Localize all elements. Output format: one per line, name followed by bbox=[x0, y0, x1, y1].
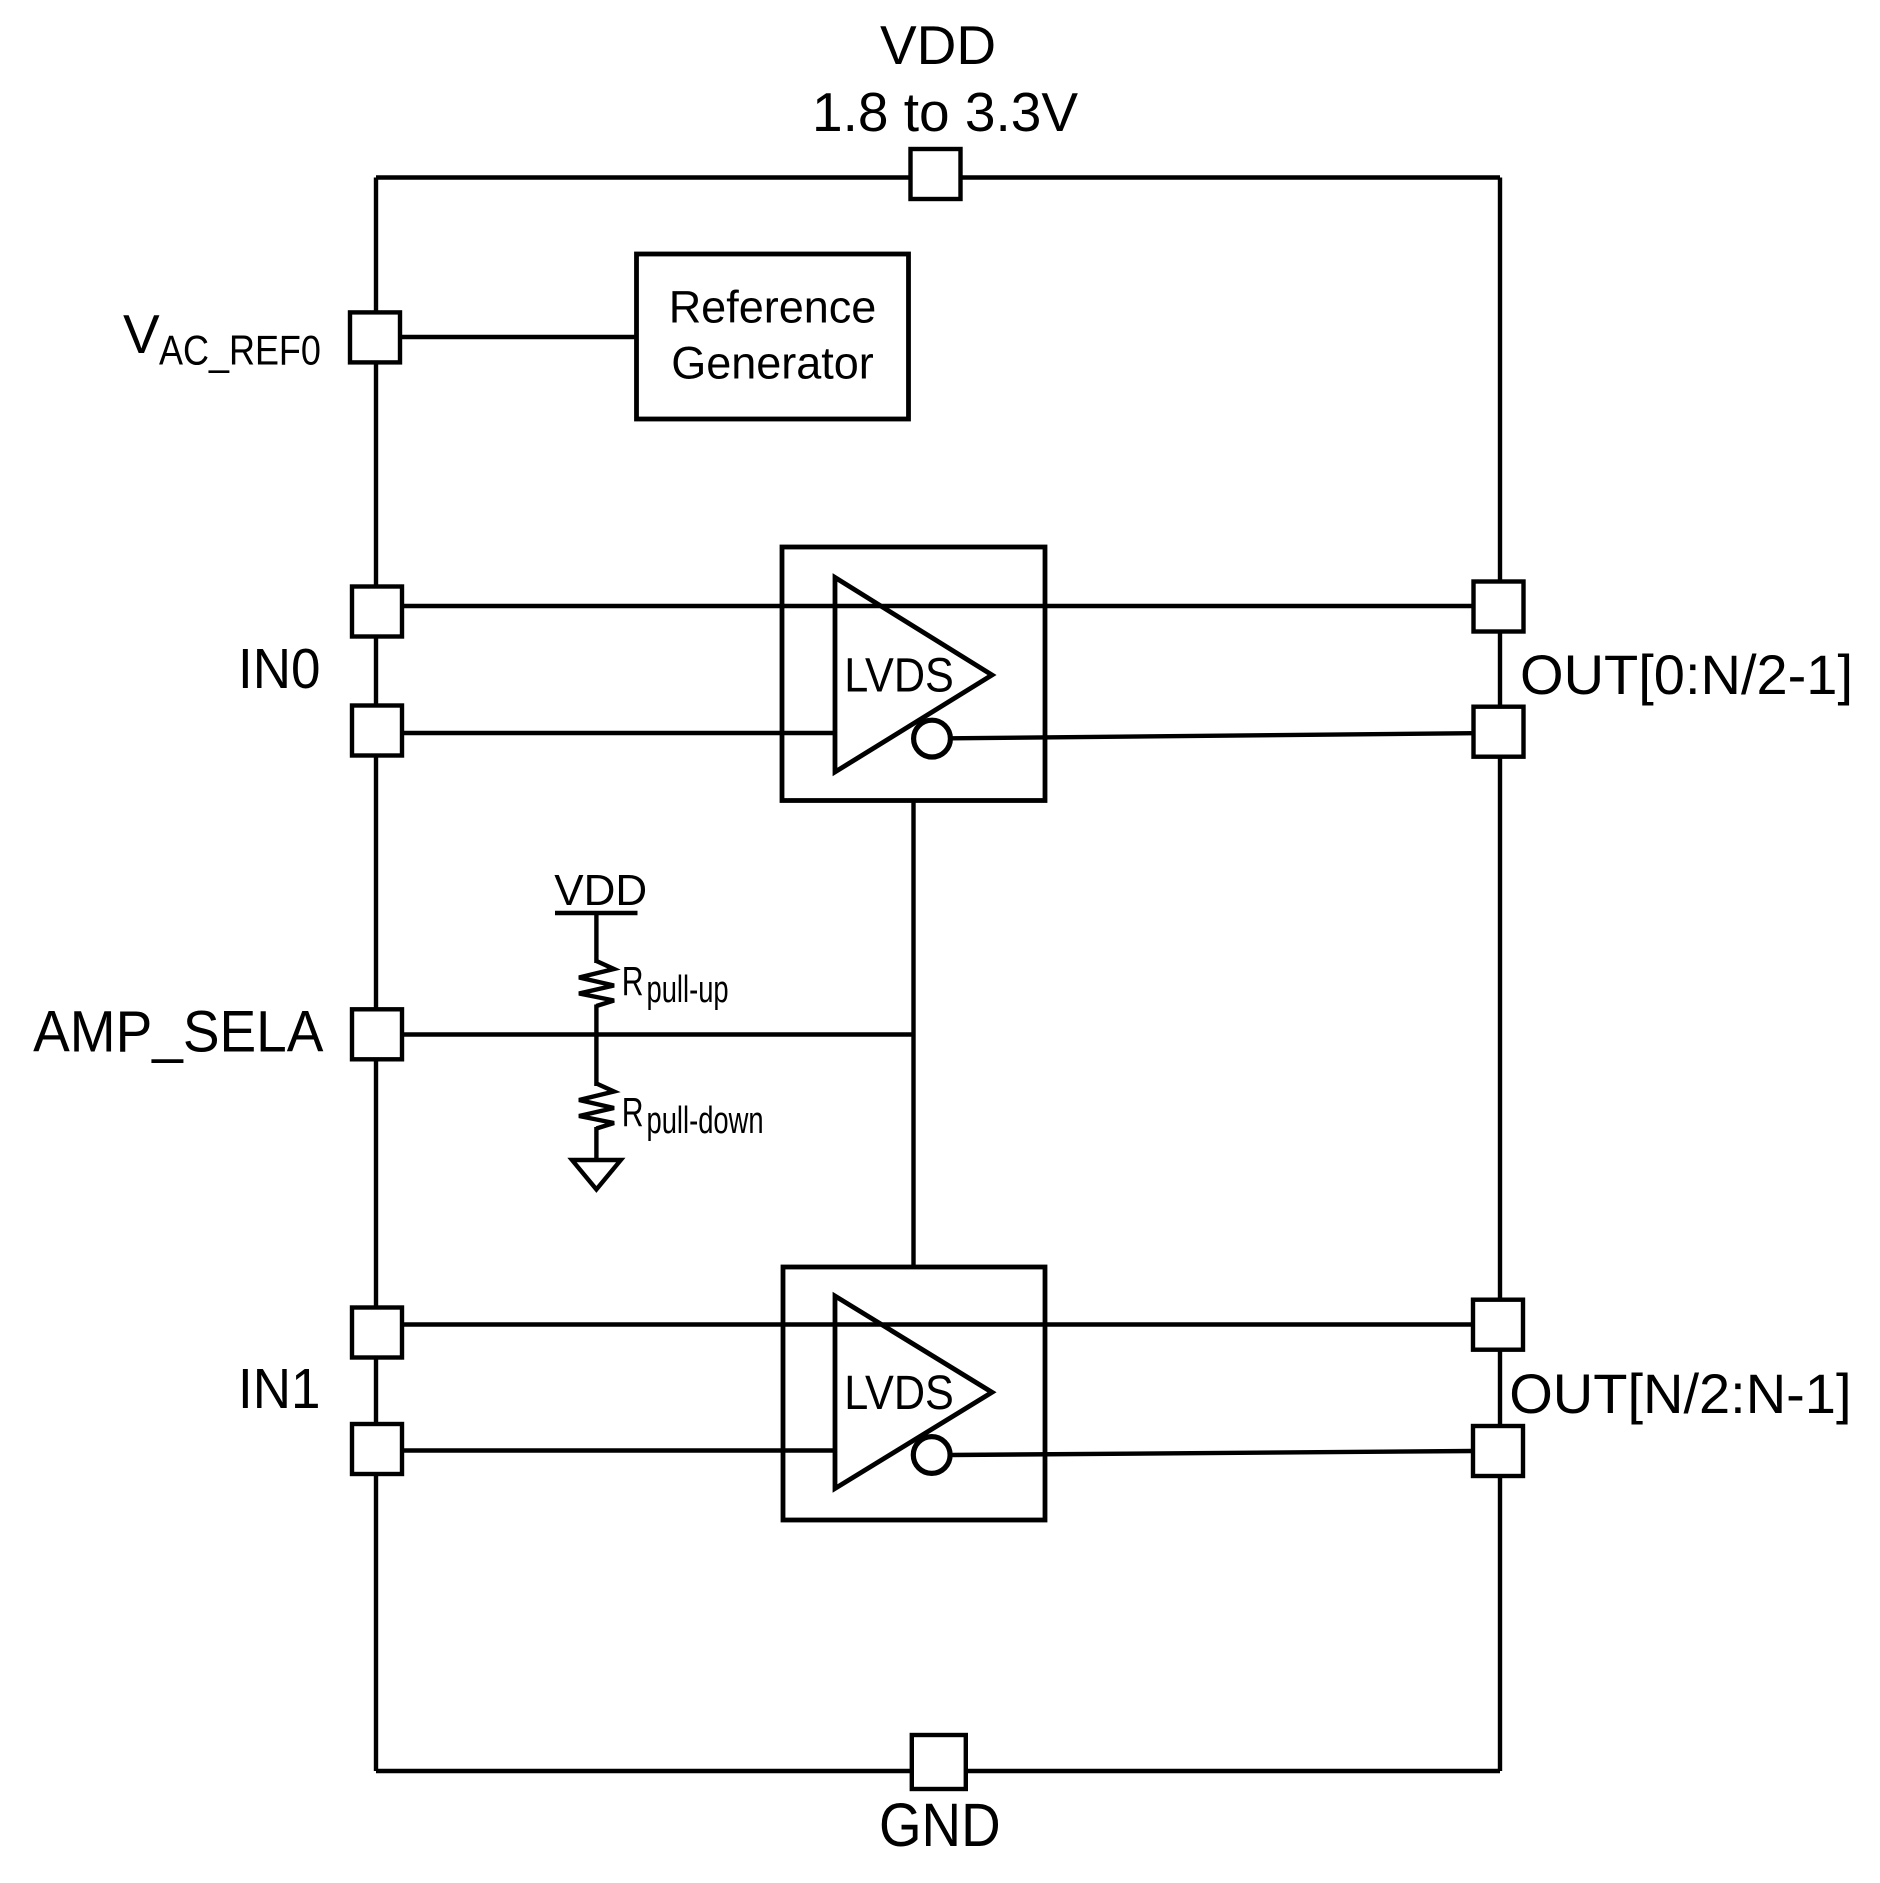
wire top boundary VDD rail bbox=[376, 175, 1500, 179]
pad VDD bbox=[911, 149, 961, 199]
resistor Rpull-down zigzag bbox=[579, 1084, 614, 1129]
pad OUT1 negative bbox=[1474, 707, 1524, 757]
wire VDD bar to Rpull-up bbox=[594, 913, 598, 963]
inversion bubble U1 bbox=[914, 720, 951, 757]
pad AMP_SELA bbox=[352, 1009, 402, 1059]
svg-text:1.8 to 3.3V: 1.8 to 3.3V bbox=[812, 81, 1078, 143]
wire IN0 negative to LVDS U1 input bbox=[377, 731, 837, 735]
svg-text:VDD: VDD bbox=[880, 14, 996, 76]
svg-text:Reference: Reference bbox=[669, 281, 877, 332]
svg-text:pull-up: pull-up bbox=[647, 969, 729, 1011]
svg-text:R: R bbox=[622, 1090, 644, 1135]
block LVDS U1 bbox=[782, 547, 1045, 801]
resistor Rpull-up zigzag bbox=[579, 961, 614, 1006]
svg-text:VDD: VDD bbox=[554, 866, 647, 915]
pad IN0 negative bbox=[352, 706, 402, 756]
wire bottom boundary GND rail bbox=[376, 1769, 1500, 1773]
svg-text:R: R bbox=[622, 959, 644, 1004]
power rail bar VDD bbox=[555, 911, 638, 915]
svg-text:Generator: Generator bbox=[671, 338, 874, 389]
wire right boundary bbox=[1498, 178, 1502, 1772]
svg-text:V: V bbox=[123, 303, 160, 365]
wire Rpull-down to ground bbox=[594, 1127, 598, 1158]
pad OUT2 negative bbox=[1473, 1426, 1523, 1476]
pad VAC_REF0 bbox=[350, 312, 400, 362]
wire VAC_REF0 to Reference Generator bbox=[377, 335, 637, 339]
wire IN0 positive to OUT top bbox=[377, 604, 1472, 608]
block Reference Generator bbox=[637, 254, 909, 419]
wire IN1 negative to LVDS U2 input bbox=[377, 1448, 837, 1452]
pad OUT2 positive bbox=[1473, 1300, 1523, 1350]
ground symbol bbox=[572, 1160, 621, 1189]
wire Rpull-up to Rpull-down through AMP_SELA net bbox=[594, 1005, 598, 1087]
svg-text:GND: GND bbox=[879, 1791, 1001, 1860]
svg-text:LVDS: LVDS bbox=[844, 1366, 954, 1420]
svg-text:IN1: IN1 bbox=[238, 1356, 320, 1420]
wire LVDS select vertical bbox=[911, 800, 915, 1267]
svg-text:LVDS: LVDS bbox=[844, 648, 954, 702]
pad GND bbox=[912, 1735, 966, 1789]
svg-text:OUT[N/2:N-1]: OUT[N/2:N-1] bbox=[1509, 1362, 1851, 1425]
wire U1 bubble to OUT bottom bbox=[950, 733, 1473, 738]
pad IN0 positive bbox=[352, 587, 402, 637]
svg-text:OUT[0:N/2-1]: OUT[0:N/2-1] bbox=[1520, 643, 1853, 706]
wire AMP_SELA horizontal bbox=[377, 1032, 914, 1036]
wire IN1 positive to OUT2 top bbox=[377, 1322, 1472, 1326]
buffer triangle U2 bbox=[835, 1296, 992, 1489]
pad IN1 negative bbox=[352, 1424, 402, 1474]
svg-text:AMP_SELA: AMP_SELA bbox=[33, 999, 324, 1064]
wire U2 bubble to OUT2 bottom bbox=[950, 1451, 1473, 1455]
buffer triangle U1 bbox=[835, 578, 992, 773]
inversion bubble U2 bbox=[913, 1437, 950, 1474]
svg-text:pull-down: pull-down bbox=[647, 1100, 764, 1142]
pad OUT1 positive bbox=[1474, 582, 1524, 632]
block LVDS U2 bbox=[783, 1267, 1045, 1520]
svg-text:IN0: IN0 bbox=[238, 636, 320, 700]
pad IN1 positive bbox=[352, 1308, 402, 1358]
wire left boundary bbox=[374, 178, 378, 1772]
svg-text:AC_REF0: AC_REF0 bbox=[159, 328, 321, 374]
